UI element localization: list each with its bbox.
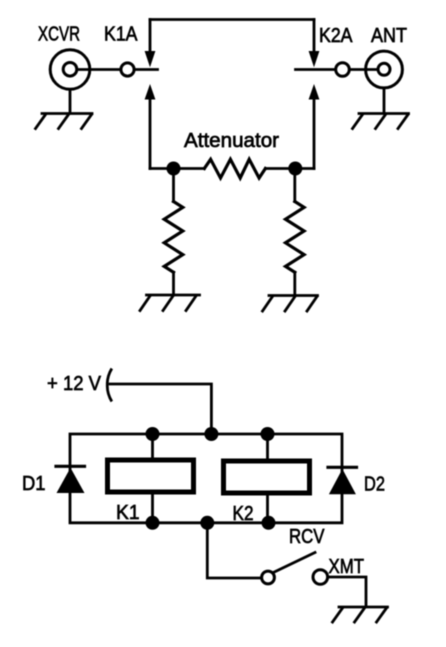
svg-text:K1: K1 (116, 501, 140, 524)
svg-text:RCV: RCV (289, 525, 325, 548)
svg-text:K1A: K1A (104, 23, 138, 46)
svg-text:XCVR: XCVR (38, 23, 80, 46)
svg-text:ANT: ANT (371, 24, 407, 47)
svg-text:K2A: K2A (319, 24, 353, 47)
svg-text:D1: D1 (22, 472, 46, 495)
svg-text:Attenuator: Attenuator (184, 129, 279, 152)
svg-text:+ 12 V: + 12 V (47, 372, 101, 395)
svg-text:D2: D2 (364, 473, 385, 496)
svg-text:K2: K2 (233, 502, 254, 525)
svg-text:XMT: XMT (329, 555, 365, 578)
